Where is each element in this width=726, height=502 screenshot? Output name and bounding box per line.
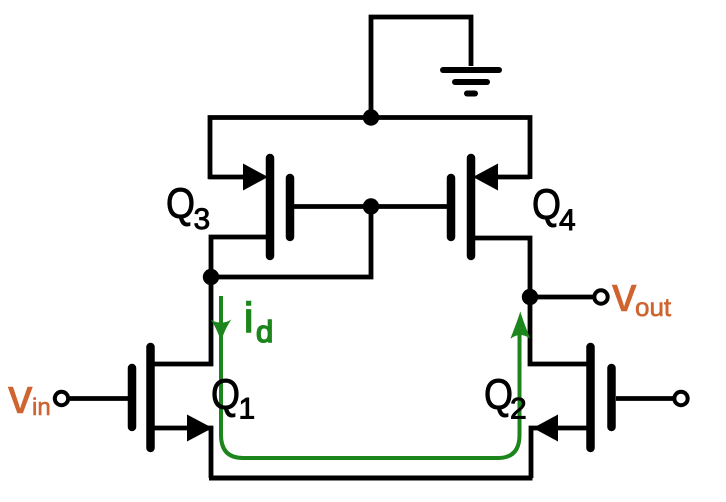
label id bbox=[244, 294, 273, 349]
svg-text:v: v bbox=[612, 268, 637, 322]
wire: Q2 source to bottom rail bbox=[531, 428, 587, 478]
wire: diode connection from gate node down-left bbox=[211, 207, 371, 278]
svg-text:Q: Q bbox=[532, 181, 561, 229]
label vin bbox=[8, 370, 51, 424]
ground bbox=[443, 70, 499, 94]
green arrow down (left) bbox=[211, 320, 232, 342]
wire: Q3 source wire bbox=[209, 175, 251, 180]
Q3 source arrow bbox=[243, 164, 268, 191]
svg-text:Q: Q bbox=[166, 180, 195, 228]
svg-text:2: 2 bbox=[510, 393, 527, 426]
Q1 source arrow bbox=[187, 415, 213, 442]
transistor Q4 bbox=[451, 158, 471, 256]
wire: Q2 gate stub bbox=[616, 396, 673, 401]
terminal vin bbox=[55, 392, 68, 405]
wire: green current path bbox=[221, 296, 520, 458]
svg-text:in: in bbox=[32, 394, 51, 421]
wire: top rail to ground bbox=[371, 17, 471, 119]
node top bbox=[363, 109, 379, 125]
wire: bottom rail bbox=[209, 476, 533, 481]
node vout bbox=[522, 289, 538, 305]
label vout bbox=[612, 268, 672, 322]
svg-text:4: 4 bbox=[559, 204, 576, 237]
svg-text:i: i bbox=[244, 294, 253, 341]
transistor Q3 bbox=[270, 158, 290, 256]
svg-text:1: 1 bbox=[239, 393, 256, 426]
Q2 source arrow bbox=[533, 415, 558, 442]
node gate bbox=[363, 198, 379, 214]
svg-text:Q: Q bbox=[484, 371, 513, 419]
label Q4 bbox=[532, 181, 576, 237]
wire: node A down to Q1 drain bbox=[154, 275, 211, 364]
label Q2 bbox=[484, 371, 527, 426]
transistor Q2 bbox=[591, 347, 612, 448]
svg-text:Q: Q bbox=[211, 371, 240, 419]
wire: Q1 source to bottom rail bbox=[154, 428, 211, 478]
wire: Q4 source wire bbox=[490, 175, 530, 180]
transistor Q1 bbox=[132, 347, 151, 448]
terminal Q2 gate bbox=[674, 392, 687, 405]
wire: Q3 drain L bbox=[211, 237, 266, 279]
wire: gate rail Q3-Q4 bbox=[294, 204, 447, 209]
label Q1 bbox=[211, 371, 255, 426]
wire: vout stub bbox=[530, 295, 594, 300]
wire: vin stub bbox=[70, 396, 128, 401]
Q4 source arrow bbox=[473, 164, 498, 191]
svg-text:d: d bbox=[256, 314, 273, 349]
svg-text:out: out bbox=[635, 292, 672, 322]
label Q3 bbox=[166, 180, 210, 236]
wire: VDD rail with Q3/Q4 source drops bbox=[210, 118, 530, 180]
wire: Q4 drain down through vout node to Q2 drain bbox=[475, 238, 587, 364]
svg-text:3: 3 bbox=[194, 203, 211, 236]
green arrow up (right) bbox=[510, 312, 530, 339]
terminal vout bbox=[594, 290, 607, 303]
svg-text:v: v bbox=[8, 370, 33, 424]
node A bbox=[203, 269, 219, 285]
